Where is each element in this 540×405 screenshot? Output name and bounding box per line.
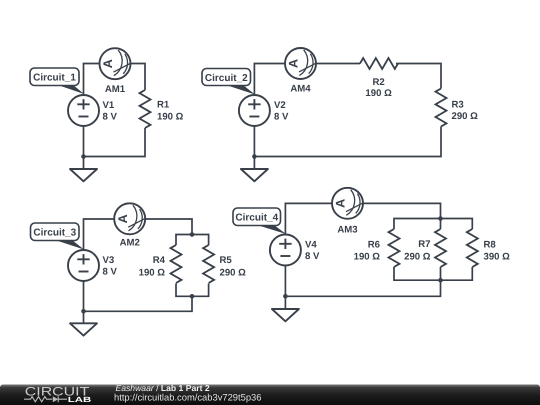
svg-text:LAB: LAB: [68, 395, 92, 404]
node junction c3 bottom bar: [190, 294, 195, 299]
svg-text:Circuit_4: Circuit_4: [235, 213, 278, 224]
callout Circuit_3: [31, 223, 85, 250]
ground circuit4: [272, 309, 299, 321]
node junction c4 top bar: [438, 216, 443, 221]
svg-text:8 V: 8 V: [274, 112, 289, 123]
ammeter AM3: [332, 188, 364, 219]
svg-text:V1: V1: [103, 100, 115, 111]
node junction circuit2: [252, 154, 257, 159]
svg-text:190 Ω: 190 Ω: [365, 88, 392, 99]
wire V3 top to AM2: [84, 219, 115, 250]
wire top-left corner V1 to AM1: [84, 64, 100, 96]
svg-text:V4: V4: [305, 240, 317, 251]
voltage source V4: [270, 235, 301, 266]
callout Circuit_2: [202, 69, 255, 95]
wire V4 top to AM3: [285, 203, 332, 234]
svg-text:Circuit_3: Circuit_3: [33, 228, 76, 239]
voltage source V2: [239, 95, 270, 126]
voltage source V1: [68, 95, 99, 126]
svg-text:290 Ω: 290 Ω: [220, 268, 247, 279]
svg-text:R5: R5: [220, 255, 233, 266]
node junction c4 ground: [283, 294, 288, 299]
svg-text:390 Ω: 390 Ω: [484, 252, 511, 263]
ammeter AM4: [285, 48, 317, 79]
svg-text:V3: V3: [103, 255, 115, 266]
resistor R8: [467, 229, 478, 267]
svg-text:R1: R1: [157, 100, 170, 111]
ground circuit1: [70, 169, 97, 181]
svg-text:R2: R2: [372, 77, 384, 88]
parallel bottom bar c4: [394, 267, 472, 280]
ground circuit2: [241, 169, 268, 181]
node junction c4 bottom bar: [438, 278, 443, 283]
resistor R1: [140, 90, 151, 128]
wire V2 bottom to ground: [253, 126, 255, 169]
logo schematic resistor: [24, 397, 52, 402]
svg-text:Circuit_1: Circuit_1: [33, 73, 76, 84]
svg-text:R3: R3: [452, 100, 464, 111]
svg-text:190 Ω: 190 Ω: [139, 268, 166, 279]
wire V1 bottom to ground node: [83, 126, 85, 169]
parallel top bar c3: [176, 235, 209, 246]
svg-text:190 Ω: 190 Ω: [157, 112, 184, 123]
callout Circuit_1: [30, 68, 84, 94]
wire R3 bottom to bottom rail to V2: [254, 127, 441, 157]
wire V2 top to AM4: [254, 64, 285, 96]
svg-text:AM3: AM3: [337, 225, 357, 236]
resistor R2: [360, 58, 398, 69]
svg-text:R7: R7: [418, 239, 430, 250]
ammeter AM2: [114, 203, 146, 234]
svg-text:R4: R4: [153, 255, 166, 266]
parallel bottom bar c3: [176, 284, 209, 297]
resistor R5: [203, 245, 214, 283]
svg-text:290 Ω: 290 Ω: [452, 111, 479, 122]
svg-text:R6: R6: [368, 240, 380, 251]
resistor R6: [389, 229, 400, 267]
callout Circuit_4: [233, 208, 286, 234]
ground circuit3: [70, 323, 97, 335]
wire R1 bottom to bottom rail: [84, 128, 146, 157]
wire parallel bottom to bottom rail: [84, 296, 193, 311]
logo schematic diode: [53, 396, 58, 402]
wire AM2 right then down to parallel top bar: [145, 219, 192, 235]
resistor R3: [436, 89, 447, 127]
wire V4 bottom to ground: [284, 266, 286, 310]
svg-text:AM4: AM4: [290, 84, 311, 95]
resistor R4: [171, 245, 182, 283]
voltage source V3: [68, 250, 99, 281]
node junction c3 top bar: [190, 232, 195, 237]
svg-text:AM1: AM1: [105, 84, 126, 95]
svg-text:V2: V2: [274, 100, 286, 111]
ammeter AM1: [100, 48, 132, 79]
parallel top bar c4: [394, 219, 472, 230]
svg-text:8 V: 8 V: [103, 267, 118, 278]
wire R2 to R3 top: [396, 64, 441, 89]
svg-text:8 V: 8 V: [103, 112, 118, 123]
svg-text:8 V: 8 V: [305, 251, 320, 262]
wire AM1 right to R1 top: [131, 64, 146, 91]
svg-text:290 Ω: 290 Ω: [404, 252, 431, 263]
svg-text:http://circuitlab.com/cab3v729: http://circuitlab.com/cab3v729t5p36: [114, 391, 261, 402]
wire AM4 to R2: [316, 63, 360, 65]
wire AM3 right then down to parallel top bar: [363, 203, 441, 229]
wire parallel bottom to bottom rail: [285, 267, 440, 296]
resistor R7: [435, 229, 446, 267]
svg-text:AM2: AM2: [120, 238, 140, 249]
footer bar: [0, 383, 540, 405]
svg-text:Circuit_2: Circuit_2: [205, 73, 248, 84]
svg-text:R8: R8: [484, 240, 497, 251]
svg-text:190 Ω: 190 Ω: [354, 252, 381, 263]
wire V3 bottom to ground: [83, 281, 85, 323]
node junction c3 ground: [81, 309, 86, 314]
node junction circuit1: [81, 154, 86, 159]
